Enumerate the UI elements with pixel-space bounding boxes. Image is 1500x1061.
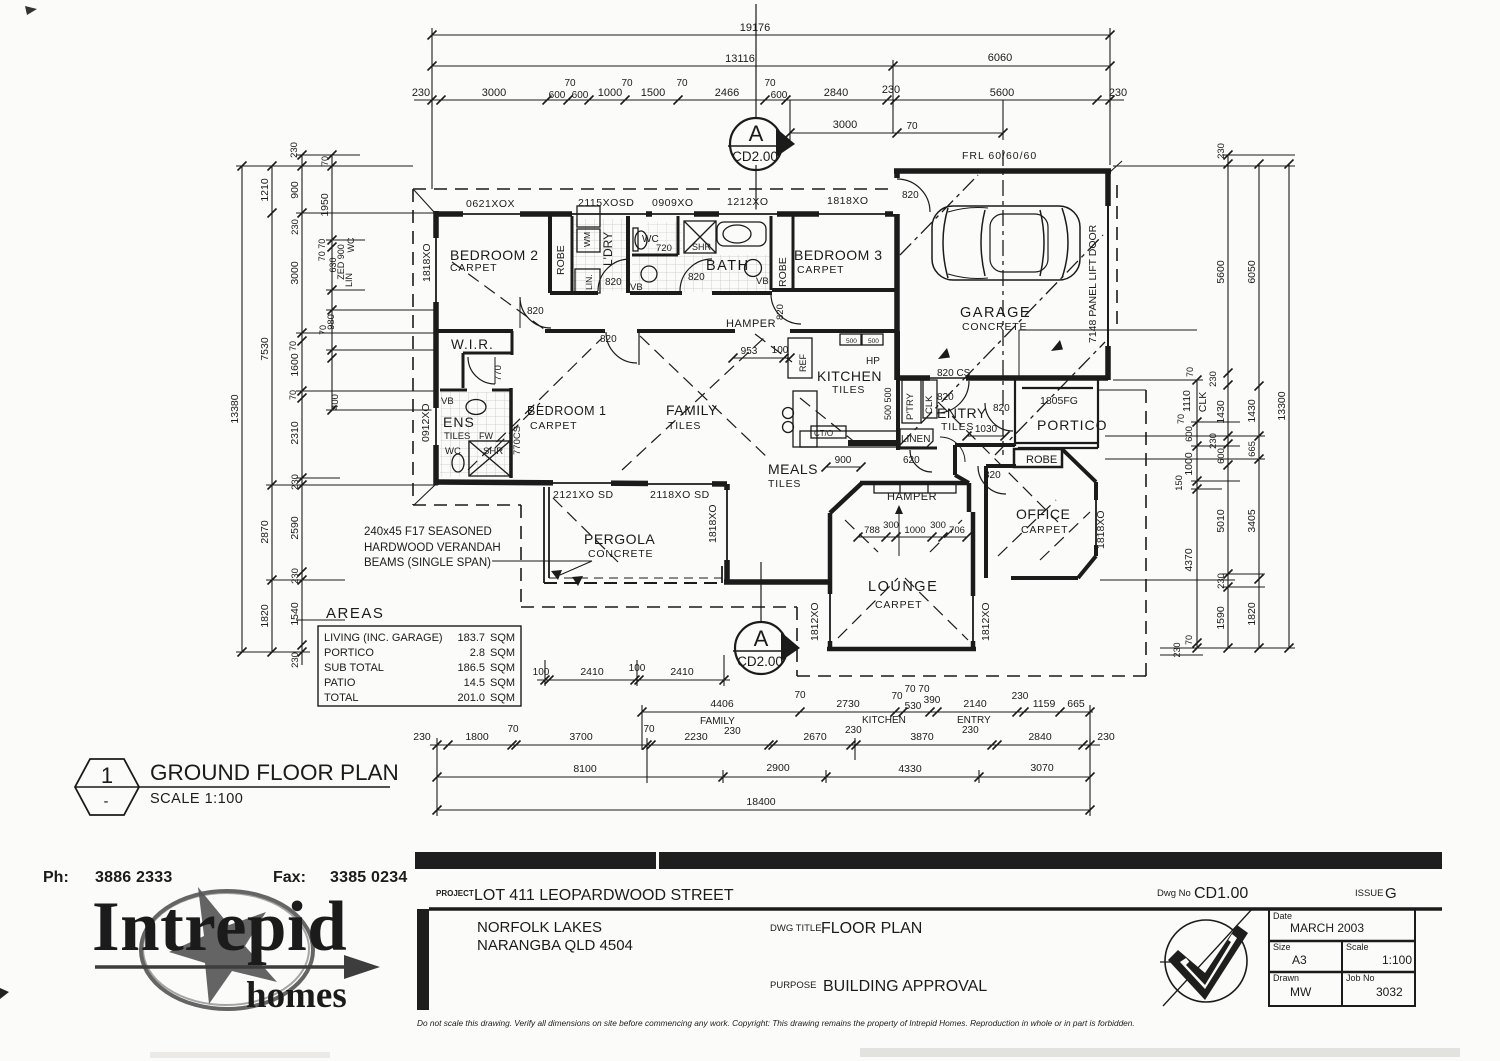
- svg-text:CD2.00: CD2.00: [732, 149, 778, 164]
- truss direction arrow: [895, 505, 903, 514]
- wc tile hatch: [646, 222, 682, 254]
- svg-text:70: 70: [643, 724, 655, 735]
- entry south wall: [955, 445, 1015, 483]
- svg-text:3405: 3405: [1246, 509, 1258, 533]
- svg-text:CONCRETE: CONCRETE: [588, 548, 653, 560]
- svg-text:LINEN: LINEN: [901, 434, 930, 445]
- svg-text:70: 70: [621, 78, 633, 89]
- svg-text:VB: VB: [630, 282, 643, 293]
- svg-text:CARPET: CARPET: [797, 264, 844, 276]
- interior partition walls: [436, 216, 937, 478]
- window 1812XO lounge west: [826, 594, 835, 641]
- svg-text:TILES: TILES: [941, 421, 974, 433]
- svg-text:788: 788: [864, 525, 880, 536]
- dim line 4406/2730/530/390/2140/1159/665: [642, 711, 1093, 713]
- svg-text:2870: 2870: [259, 520, 271, 544]
- scan speck top-left: [25, 6, 37, 15]
- svg-text:MARCH 2003: MARCH 2003: [1290, 921, 1364, 935]
- svg-text:230: 230: [1012, 691, 1029, 702]
- svg-text:820: 820: [605, 277, 622, 288]
- svg-text:530: 530: [905, 701, 922, 712]
- svg-text:ROBE: ROBE: [555, 245, 567, 275]
- svg-text:CT/O: CT/O: [814, 429, 833, 438]
- svg-text:70: 70: [1184, 635, 1194, 645]
- svg-text:150: 150: [1174, 475, 1185, 491]
- svg-text:230: 230: [412, 87, 430, 99]
- svg-text:GROUND FLOOR PLAN: GROUND FLOOR PLAN: [150, 760, 399, 785]
- vertical end extensions: [431, 28, 433, 107]
- svg-text:5010: 5010: [1215, 509, 1227, 533]
- svg-text:600: 600: [572, 90, 589, 101]
- svg-text:70: 70: [1185, 367, 1195, 377]
- svg-text:230: 230: [962, 725, 979, 736]
- bathroom tile hatch: [632, 255, 770, 292]
- svg-text:2410: 2410: [670, 666, 694, 678]
- svg-text:19176: 19176: [740, 22, 771, 34]
- svg-text:WM: WM: [582, 232, 592, 247]
- lounge bay walls: [827, 483, 976, 651]
- svg-text:SHR: SHR: [692, 242, 712, 252]
- svg-text:A3: A3: [1292, 953, 1307, 967]
- svg-text:OFFICE: OFFICE: [1016, 506, 1070, 522]
- opening 820 CS: [930, 374, 966, 383]
- window 0909XO: [652, 210, 694, 219]
- svg-text:600: 600: [549, 90, 566, 101]
- pergola south dashed edge: [544, 582, 727, 584]
- svg-text:VB: VB: [441, 396, 454, 407]
- svg-text:HARDWOOD VERANDAH: HARDWOOD VERANDAH: [364, 542, 501, 554]
- hall top wall: [550, 291, 598, 295]
- svg-text:1000: 1000: [1183, 452, 1195, 476]
- svg-text:KITCHEN: KITCHEN: [862, 715, 906, 726]
- dim line 18400: [437, 809, 1090, 811]
- right dim line 6050/1430/665/3405/1820: [1258, 164, 1260, 648]
- svg-text:300: 300: [883, 520, 899, 531]
- svg-text:MW: MW: [1290, 985, 1312, 999]
- horizontal connectors: [236, 165, 413, 167]
- verandah note leader arrow: [492, 561, 592, 575]
- svg-text:7530: 7530: [259, 337, 271, 361]
- svg-text:240x45 F17 SEASONED: 240x45 F17 SEASONED: [364, 526, 492, 538]
- window 1818XO bed2: [432, 238, 441, 302]
- svg-text:3870: 3870: [910, 731, 934, 743]
- wall: garage east exterior (panel lift door): [1105, 171, 1111, 380]
- title block left bar: [417, 909, 429, 1010]
- wall: front (north) exterior: [436, 211, 898, 217]
- wc toilet: [635, 231, 647, 249]
- svg-text:230: 230: [290, 568, 301, 584]
- svg-text:HAMPER: HAMPER: [887, 491, 937, 503]
- svg-text:L'DRY: L'DRY: [601, 232, 615, 266]
- svg-text:1818XO: 1818XO: [1095, 510, 1107, 549]
- shower bath: [684, 221, 716, 253]
- svg-text:BEDROOM 2: BEDROOM 2: [450, 247, 539, 263]
- svg-text:CLK: CLK: [1197, 392, 1209, 412]
- svg-text:CARPET: CARPET: [875, 599, 922, 611]
- svg-text:6060: 6060: [988, 52, 1012, 64]
- kitchen right / entry wall: [896, 331, 900, 450]
- svg-text:600: 600: [771, 90, 788, 101]
- right dim ticks: [1193, 376, 1202, 385]
- svg-text:0909XO: 0909XO: [652, 197, 694, 209]
- svg-text:2115XOSD: 2115XOSD: [578, 197, 634, 209]
- dim line 19176: [432, 34, 1110, 36]
- section marker A CD2.00 (bottom): [735, 622, 787, 674]
- wall: garage / house shared: [894, 171, 900, 380]
- left dim line 13380: [241, 166, 243, 652]
- drop lines to plan: [431, 100, 433, 189]
- svg-text:G: G: [1385, 885, 1397, 902]
- svg-text:MEALS: MEALS: [768, 461, 818, 477]
- svg-text:homes: homes: [246, 975, 347, 1016]
- svg-text:900: 900: [835, 455, 852, 466]
- roof / eaves dashed outline: [413, 185, 1146, 676]
- svg-text:PROJECT: PROJECT: [436, 889, 474, 898]
- section marker A CD2.00 (top): [730, 118, 782, 170]
- svg-text:1818XO: 1818XO: [707, 504, 719, 543]
- right dim line 1110/600/1000/4370: [1196, 380, 1198, 648]
- table headers Date/Size/Scale/Drawn/Job No: [1273, 911, 1375, 983]
- svg-text:500 500: 500 500: [883, 387, 893, 420]
- lounge dim 788/300/1000/300/706: [858, 508, 967, 556]
- svg-text:-: -: [104, 793, 109, 810]
- svg-text:1110: 1110: [1181, 390, 1193, 412]
- svg-text:70: 70: [564, 78, 576, 89]
- svg-text:13380: 13380: [229, 394, 241, 423]
- svg-text:LOT 411 LEOPARDWOOD STREET: LOT 411 LEOPARDWOOD STREET: [474, 887, 734, 904]
- svg-text:1030: 1030: [975, 424, 998, 435]
- svg-text:620: 620: [903, 455, 920, 466]
- intrepid logo: [92, 887, 380, 1016]
- svg-text:1:100: 1:100: [1382, 953, 1412, 967]
- wall: south exterior bed1/family: [434, 482, 727, 484]
- svg-text:4370: 4370: [1183, 548, 1195, 572]
- svg-text:TILES: TILES: [768, 478, 801, 490]
- svg-text:100: 100: [533, 667, 550, 678]
- connectors: [1113, 165, 1295, 167]
- svg-text:18400: 18400: [746, 796, 775, 808]
- svg-text:Fax:: Fax:: [273, 869, 306, 886]
- svg-text:2121XO SD: 2121XO SD: [553, 489, 614, 501]
- svg-text:720: 720: [656, 243, 672, 254]
- dim line 13116 / 6060: [432, 65, 1110, 67]
- hamper cabinet: [874, 484, 956, 493]
- vanities: [745, 260, 762, 277]
- portico structure: [1015, 380, 1098, 448]
- svg-text:P'TRY: P'TRY: [905, 392, 916, 420]
- ceiling truss dashed diagonals: [452, 262, 1090, 640]
- svg-text:70: 70: [288, 390, 298, 400]
- svg-text:2230: 2230: [684, 731, 708, 743]
- svg-text:FAMILY: FAMILY: [666, 402, 718, 418]
- section marker A top: [728, 4, 795, 211]
- svg-text:3385 0234: 3385 0234: [330, 869, 407, 886]
- ensuite tile hatch: [440, 392, 510, 477]
- garage internal door opening: [893, 178, 901, 214]
- dim line 100/2410/100/2410: [537, 679, 730, 681]
- svg-text:LIN.: LIN.: [584, 274, 594, 290]
- svg-text:1430: 1430: [1246, 399, 1258, 423]
- svg-text:1540: 1540: [289, 602, 301, 626]
- window 0621XOX: [463, 210, 520, 219]
- svg-text:BEDROOM 1: BEDROOM 1: [527, 404, 607, 418]
- svg-text:600: 600: [1216, 448, 1227, 464]
- svg-text:2410: 2410: [580, 666, 604, 678]
- window thin sections over walls: [432, 178, 1113, 560]
- window 2115XOSD: [572, 210, 646, 219]
- svg-text:3000: 3000: [289, 261, 301, 285]
- svg-text:3700: 3700: [569, 731, 593, 743]
- svg-text:W.I.R.: W.I.R.: [451, 337, 494, 352]
- svg-text:183.7: 183.7: [457, 632, 485, 644]
- svg-text:HAMPER: HAMPER: [726, 318, 776, 330]
- svg-text:1000: 1000: [598, 87, 622, 99]
- svg-text:SQM: SQM: [490, 692, 515, 704]
- svg-text:3886 2333: 3886 2333: [95, 869, 172, 886]
- svg-text:SHR: SHR: [483, 446, 503, 457]
- svg-text:1212XO: 1212XO: [727, 196, 769, 208]
- svg-text:PORTICO: PORTICO: [324, 647, 374, 659]
- car in garage: [932, 206, 1080, 280]
- svg-text:REF: REF: [798, 353, 808, 372]
- svg-text:ROBE: ROBE: [1026, 454, 1057, 466]
- svg-text:Drawn: Drawn: [1273, 973, 1299, 983]
- svg-text:953: 953: [741, 346, 758, 357]
- svg-text:CONCRETE: CONCRETE: [962, 321, 1027, 333]
- svg-text:70: 70: [891, 691, 903, 702]
- svg-text:CD2.00: CD2.00: [737, 654, 783, 669]
- svg-text:PERGOLA: PERGOLA: [584, 531, 655, 547]
- bath tub: [717, 222, 766, 246]
- intrepid compass mark: [1165, 920, 1247, 1002]
- svg-text:ISSUE: ISSUE: [1355, 888, 1384, 899]
- rotated labels (robes, windows, panel door): [420, 224, 1107, 641]
- ticks row3: [428, 96, 437, 105]
- svg-text:1600: 1600: [289, 353, 301, 377]
- svg-text:70 70: 70 70: [317, 239, 327, 262]
- svg-text:SQM: SQM: [490, 647, 515, 659]
- vertical stubs: [436, 738, 438, 816]
- truss arrow garage 1: [938, 348, 950, 359]
- hall bottom wall: [436, 329, 513, 333]
- svg-text:1812XO: 1812XO: [809, 602, 821, 641]
- svg-text:1818XO: 1818XO: [827, 195, 869, 207]
- svg-text:WC: WC: [346, 237, 356, 252]
- svg-text:CARPET: CARPET: [1021, 524, 1068, 536]
- svg-text:6050: 6050: [1246, 260, 1258, 284]
- svg-text:390: 390: [924, 695, 941, 706]
- svg-text:70: 70: [320, 156, 330, 166]
- svg-text:2590: 2590: [289, 516, 301, 540]
- svg-text:5600: 5600: [990, 87, 1014, 99]
- truss arrow garage 2: [1051, 340, 1063, 351]
- svg-text:0912XO: 0912XO: [420, 403, 432, 442]
- window schedule labels: [466, 195, 869, 501]
- svg-text:820: 820: [984, 470, 1001, 481]
- svg-text:820: 820: [902, 190, 919, 201]
- small dims 953/100, 900, 1030: [733, 358, 1005, 467]
- bottom dimension labels: [413, 663, 1115, 808]
- svg-text:1159: 1159: [1033, 698, 1056, 710]
- svg-text:665: 665: [1067, 698, 1085, 710]
- left dimension labels: [229, 142, 356, 668]
- svg-text:Size: Size: [1273, 942, 1291, 952]
- svg-text:230: 230: [290, 219, 301, 235]
- title block top bar: [415, 852, 1442, 869]
- svg-text:NARANGBA QLD 4504: NARANGBA QLD 4504: [477, 937, 633, 954]
- kitchen: [793, 391, 817, 447]
- svg-text:ENS: ENS: [443, 414, 475, 430]
- svg-text:2730: 2730: [836, 698, 860, 710]
- svg-text:201.0: 201.0: [457, 692, 485, 704]
- svg-text:A: A: [754, 626, 769, 651]
- svg-text:230: 230: [1208, 371, 1219, 387]
- left dim line 1210/7530/2870/1820: [271, 166, 273, 652]
- svg-text:CARPET: CARPET: [530, 420, 577, 432]
- svg-text:KITCHEN: KITCHEN: [817, 368, 882, 384]
- svg-text:2670: 2670: [803, 731, 827, 743]
- intrepid logo circle: [141, 891, 313, 1009]
- svg-text:CLK: CLK: [924, 395, 935, 414]
- svg-text:230: 230: [1216, 143, 1227, 159]
- svg-text:1500: 1500: [641, 87, 665, 99]
- svg-text:A: A: [749, 121, 764, 146]
- lounge dim ticks: [854, 533, 863, 542]
- svg-text:2118XO SD: 2118XO SD: [650, 489, 710, 501]
- svg-text:820: 820: [937, 392, 954, 403]
- note 240x45 F17 seasoned hardwood verandah beams: [364, 526, 501, 569]
- svg-text:FRL 60/60/60: FRL 60/60/60: [962, 150, 1037, 162]
- wall: meals south: [724, 579, 831, 585]
- room labels: [450, 247, 883, 263]
- wall: west exterior: [433, 211, 439, 485]
- svg-text:665: 665: [1247, 441, 1258, 457]
- svg-text:PORTICO: PORTICO: [1037, 417, 1108, 433]
- WIR: [511, 331, 514, 355]
- intrepid logo arrow: [95, 965, 352, 969]
- svg-text:2310: 2310: [289, 421, 301, 445]
- svg-text:Date: Date: [1273, 911, 1292, 921]
- svg-text:1210: 1210: [259, 178, 271, 202]
- window 1818XO office: [1092, 500, 1101, 545]
- svg-text:0621XOX: 0621XOX: [466, 198, 515, 210]
- svg-text:4330: 4330: [898, 763, 922, 775]
- svg-text:ROBE: ROBE: [777, 257, 789, 287]
- kitchen bench dark edge: [848, 440, 896, 446]
- dim ticks top rows: [428, 31, 437, 40]
- garage truss dash-dot lines: [900, 150, 1105, 455]
- eave corner ties: [414, 161, 1122, 505]
- svg-text:SUB TOTAL: SUB TOTAL: [324, 662, 384, 674]
- dividers: [548, 216, 552, 293]
- bottom dim ticks: [541, 676, 550, 685]
- svg-text:4406: 4406: [710, 698, 734, 710]
- svg-text:300: 300: [930, 520, 946, 531]
- svg-text:70: 70: [288, 341, 298, 351]
- wall: family east: [724, 484, 730, 583]
- svg-text:TILES: TILES: [832, 384, 865, 396]
- window 1812XO lounge east: [969, 596, 978, 641]
- svg-text:FLOOR PLAN: FLOOR PLAN: [821, 920, 922, 937]
- svg-text:NORFOLK LAKES: NORFOLK LAKES: [477, 919, 602, 936]
- portico top extension line: [1098, 389, 1146, 391]
- svg-text:1812XO: 1812XO: [980, 602, 992, 641]
- svg-text:13116: 13116: [725, 53, 755, 65]
- svg-text:2.8: 2.8: [470, 647, 485, 659]
- left dim line 230/900/230/3000/1600/2310/2590/1540: [301, 155, 303, 665]
- right dimension labels: [1172, 143, 1288, 657]
- svg-text:3000: 3000: [482, 87, 506, 99]
- garage panel lift door opening: [1104, 206, 1113, 346]
- window 2121XO SD: [553, 479, 611, 488]
- window 2118XO SD: [648, 480, 712, 489]
- svg-text:230: 230: [289, 142, 300, 158]
- svg-text:70: 70: [1176, 414, 1186, 424]
- svg-text:70: 70: [507, 724, 519, 735]
- svg-text:Do not scale this drawing. V: Do not scale this drawing. Verify all di…: [417, 1018, 1135, 1028]
- lounge dim labels: [864, 520, 965, 536]
- svg-text:1805FG: 1805FG: [1040, 395, 1078, 407]
- ens: [440, 389, 467, 392]
- svg-text:500: 500: [868, 338, 879, 345]
- entry closets: [902, 380, 921, 423]
- svg-text:13300: 13300: [1276, 391, 1288, 420]
- svg-text:900: 900: [289, 181, 301, 199]
- title block data table: [1269, 910, 1415, 1007]
- svg-text:BEDROOM 3: BEDROOM 3: [794, 247, 883, 263]
- svg-text:5600: 5600: [1215, 260, 1227, 284]
- svg-text:TILES: TILES: [444, 431, 470, 442]
- svg-text:Intrepid: Intrepid: [92, 888, 347, 966]
- svg-text:770CS: 770CS: [512, 426, 523, 455]
- door swing arcs: [468, 179, 1013, 494]
- svg-text:PURPOSE: PURPOSE: [770, 980, 816, 991]
- svg-text:AREAS: AREAS: [326, 605, 384, 622]
- svg-text:70: 70: [906, 121, 918, 132]
- svg-text:230: 230: [1216, 573, 1227, 589]
- svg-text:BEAMS (SINGLE SPAN): BEAMS (SINGLE SPAN): [364, 557, 491, 569]
- svg-text:1820: 1820: [259, 604, 271, 628]
- svg-text:TILES: TILES: [668, 420, 701, 432]
- drawing number hexagon 1: [75, 759, 139, 815]
- svg-text:VB: VB: [756, 276, 769, 287]
- svg-text:7148 PANEL LIFT DOOR: 7148 PANEL LIFT DOOR: [1087, 224, 1099, 343]
- svg-text:Ph:: Ph:: [43, 869, 69, 886]
- laundry tile hatch: [573, 219, 627, 291]
- svg-text:1820: 1820: [1246, 602, 1258, 626]
- entry closets wall: [898, 447, 937, 450]
- svg-text:BUILDING APPROVAL: BUILDING APPROVAL: [823, 978, 987, 995]
- svg-text:70: 70: [676, 78, 688, 89]
- svg-text:1430: 1430: [1215, 400, 1227, 424]
- scanner smudge bottom: [860, 1048, 1460, 1057]
- svg-text:3070: 3070: [1030, 762, 1054, 774]
- svg-text:230: 230: [290, 652, 301, 668]
- svg-text:DWG TITLE: DWG TITLE: [770, 923, 822, 934]
- svg-text:1000: 1000: [904, 525, 925, 536]
- svg-text:230: 230: [413, 731, 431, 743]
- svg-text:1950: 1950: [319, 193, 331, 217]
- svg-text:400: 400: [330, 394, 341, 410]
- dim line 8100/2900/4330/3070: [437, 776, 1090, 778]
- window 1818XO bed3: [819, 210, 885, 219]
- svg-text:230: 230: [845, 725, 862, 736]
- svg-text:SQM: SQM: [490, 662, 515, 674]
- top dimension labels: [412, 22, 1127, 132]
- svg-text:Scale: Scale: [1346, 942, 1369, 952]
- title block: [415, 852, 1442, 1028]
- svg-text:1818XO: 1818XO: [421, 243, 433, 282]
